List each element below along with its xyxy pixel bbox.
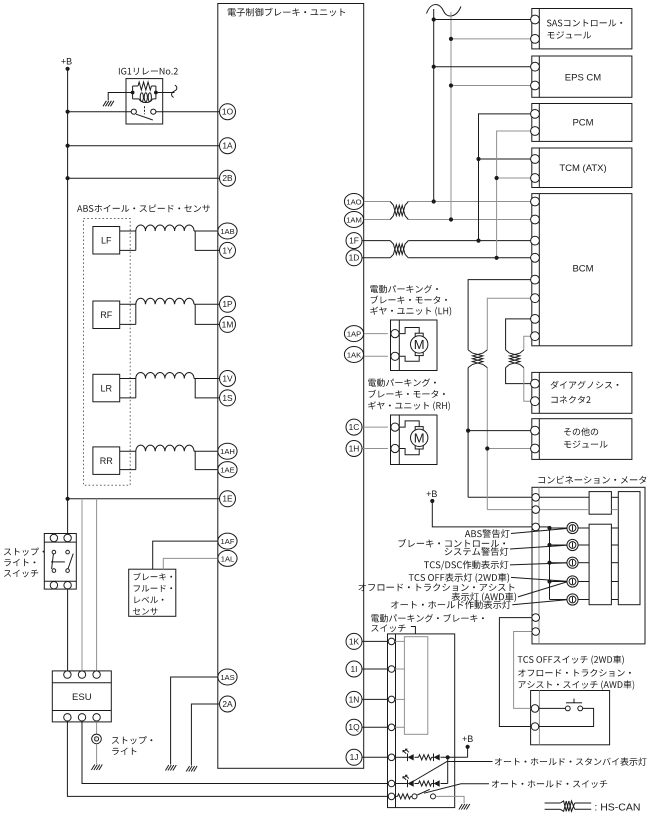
- inductor RR sensor coil: [136, 445, 194, 451]
- connector EPB switch pin at y=796.4: [388, 793, 395, 800]
- junction lamp bus 3: [547, 561, 551, 565]
- svg-text:1Q: 1Q: [348, 722, 360, 732]
- wire stop light switch levers: [51, 554, 73, 569]
- module ダイアグノシス・コネクタ2 box: [532, 372, 632, 413]
- wire stop light switch to ESU: [67, 589, 69, 672]
- inductor LF sensor coil: [136, 225, 194, 231]
- svg-text:2B: 2B: [222, 173, 233, 183]
- wire relay switch lever: [136, 114, 153, 120]
- wire lamp 3 block stub: [611, 562, 618, 564]
- wire meter pin4 to TCS switch pin2: [499, 618, 532, 727]
- wire meter pin5 to TCS switch pin1: [514, 632, 532, 709]
- wire meter lamp supply bus: [540, 527, 550, 600]
- inductor RF sensor coil: [136, 298, 194, 304]
- sensor LF (ABS wheel speed sensor) box: [93, 227, 120, 255]
- label その他のモジュール: [564, 428, 608, 448]
- wire pin 1Q to EPB switch: [363, 726, 388, 728]
- motor M (RH) brushes: [415, 427, 423, 449]
- wire CAN bus vertical (to SAS/EPS, CAN-H): [433, 9, 435, 202]
- label TCS/DSC作動表示灯: [424, 560, 508, 570]
- wire TCS switch return loop: [539, 708, 594, 726]
- connector LH unit pin at y=356.3: [391, 352, 399, 360]
- connector TCS switch pin at y=708.4: [531, 705, 539, 713]
- wire その他のモジュール pin1 stub: [468, 430, 532, 432]
- label IG1リレーNo.2: [119, 68, 178, 75]
- node relay internal node right: [154, 91, 158, 95]
- twisted pair BCM/meter: [468, 350, 487, 368]
- connector ESU bottom pin x=67.4: [64, 714, 71, 721]
- connector RH unit pin at y=427.1: [391, 423, 399, 431]
- module ESU box: [52, 671, 111, 722]
- connector ESU bottom pin x=82: [78, 714, 85, 721]
- svg-text:1O: 1O: [222, 107, 234, 117]
- wire pin 1AS to ground: [171, 677, 220, 765]
- wire RF coil to upper pin: [194, 303, 220, 305]
- wire pin 1E feed: [68, 498, 220, 500]
- resistor row2 chain resistor: [419, 781, 432, 786]
- wire PCM connector strip inner edge: [538, 104, 540, 142]
- junction CAN-H / SAS: [432, 17, 436, 21]
- lamp ブレーキ・コントロール・システム警告灯 indicator: [567, 539, 578, 550]
- connector meter pin at y=509.6: [532, 506, 540, 514]
- switch 電動パーキング・ブレーキ・スイッチ box: [388, 634, 455, 808]
- wire pin 2A to ground: [191, 704, 220, 766]
- wire EPS pin1 feed: [434, 66, 532, 68]
- wire RH motor supply route (lower): [399, 449, 419, 455]
- wire 1E row to ESU pin 3: [96, 499, 98, 672]
- wire LR sensor stub lower: [120, 397, 136, 399]
- connector pin 1E: [220, 491, 236, 507]
- wire 1E row to ESU pin 2: [81, 499, 83, 672]
- svg-text:1AO: 1AO: [346, 197, 361, 206]
- connector module pin at y=113.9: [531, 110, 540, 119]
- wire BCM pin6 to meter pin2: [487, 298, 532, 509]
- svg-text:1A: 1A: [222, 141, 233, 151]
- wire RR coil to upper pin: [194, 450, 220, 452]
- wire SAS pin1 feed: [434, 19, 532, 21]
- connector pin 1Q: [346, 719, 362, 735]
- wire PCM pin1 to 1F: [479, 114, 532, 241]
- wire pin 1N to EPB switch: [363, 698, 388, 700]
- connector meter pin at y=617.6: [532, 614, 540, 622]
- wire lamp 5 feed stub: [550, 599, 590, 601]
- wire relay parallel-branch bracket (left): [133, 86, 156, 99]
- svg-text:PCM: PCM: [572, 118, 593, 129]
- connector meter pin at y=526.9: [532, 523, 540, 531]
- label オート・ホールド作動表示灯: [391, 600, 511, 609]
- svg-text:1P: 1P: [222, 299, 233, 309]
- svg-text:M: M: [414, 337, 425, 352]
- wire BCM pin5 to meter pin1: [468, 280, 532, 498]
- connector module pin at y=336.2: [531, 332, 540, 341]
- connector pin 1K: [346, 633, 362, 649]
- wire stop light to ground: [96, 744, 98, 764]
- label TCM (ATX): [559, 163, 606, 174]
- wire SAS pin2 feed: [451, 38, 532, 40]
- wire 1J LED chain lead: [395, 756, 408, 758]
- connector module pin at y=240.6: [531, 236, 540, 245]
- label ストップ・ライト・スイッチ: [4, 548, 45, 578]
- label オフロード・トラクション・アシスト表示灯 (AWD車): [359, 583, 517, 602]
- connector pin 1AE: [218, 462, 237, 478]
- wire LR coil to upper pin: [194, 378, 220, 380]
- label コンビネーション・メータ: [539, 476, 647, 484]
- svg-text:1K: 1K: [349, 636, 360, 646]
- motor unit 電動パーキング・ブレーキ・モータ・ギヤ・ユニット (LH) box: [391, 320, 438, 371]
- wire LF coil to upper pin: [194, 230, 220, 232]
- lamp ストップ・ライト stop light: [92, 734, 102, 744]
- connector module pin at y=131: [531, 127, 540, 136]
- wire lamp 1 block stub: [611, 527, 618, 529]
- svg-text:LR: LR: [101, 383, 113, 393]
- module meter internal block (top): [589, 492, 611, 515]
- junction +B / 2B: [66, 176, 70, 180]
- wire +B to pin 2B: [68, 177, 220, 179]
- wire pin feed to RH unit pin1: [363, 426, 388, 428]
- connector EPB switch pin at y=641.4: [388, 638, 395, 645]
- wire pin feed to LH unit pin2: [363, 355, 388, 357]
- module その他のモジュール box: [532, 419, 632, 460]
- motor unit 電動パーキング・ブレーキ・モータ・ギヤ・ユニット (RH) box: [391, 415, 438, 465]
- switch オート・ホールド・スイッチ contacts: [412, 794, 436, 799]
- wire RF sensor stub lower: [120, 323, 136, 325]
- svg-text:1AP: 1AP: [347, 330, 361, 339]
- junction lamp bus 1: [547, 526, 551, 530]
- connector pin 1N: [346, 691, 362, 707]
- node ABS wheel speed sensor dashed enclosure: [84, 219, 131, 486]
- junction その他 pin1: [466, 429, 470, 433]
- label 電動パーキング・ブレーキ・スイッチ: [371, 614, 484, 632]
- resistor 1J chain resistor: [419, 755, 432, 760]
- label ABS警告灯: [465, 529, 510, 538]
- connector stop light switch pin (53.9,538): [50, 534, 57, 541]
- twisted pair BCM/diagnosis connector: [506, 350, 524, 368]
- ground 2A ground: [186, 766, 197, 772]
- wire LH motor supply route (upper): [399, 328, 419, 334]
- label RF: [100, 310, 112, 320]
- wire leader TCS/DSC作動表示灯: [510, 563, 567, 565]
- wire chain node to row2: [447, 757, 449, 783]
- wire BCM pin7 to diagnosis connector pin1: [506, 319, 532, 384]
- connector module pin at y=85.5: [531, 81, 540, 90]
- wire +B vertical feed (left): [67, 69, 69, 535]
- wire RF sensor stub upper: [120, 303, 136, 305]
- svg-text:2A: 2A: [222, 699, 233, 709]
- wire relay contact to pin 1O: [156, 111, 220, 113]
- svg-text:TCM (ATX): TCM (ATX): [559, 163, 606, 174]
- connector module pin at y=201.5: [531, 197, 540, 206]
- connector ESU bottom pin x=96.6: [93, 714, 100, 721]
- node IG1 feed continuation squiggle: [172, 85, 177, 97]
- resistor relay parallel resistor: [133, 82, 156, 90]
- svg-text:: HS-CAN: : HS-CAN: [594, 802, 640, 814]
- label ESU: [72, 692, 92, 703]
- wire leader オート・ホールド・スタンバイ表示灯: [413, 762, 493, 782]
- LED オート・ホールド・スタンバイ表示灯 (row1): [403, 749, 414, 761]
- resistor auto-hold switch resistor: [395, 794, 412, 799]
- wire TCS box connector strip inner edge: [538, 691, 540, 745]
- switch TCS OFFスイッチ box: [531, 691, 610, 745]
- svg-text:1C: 1C: [349, 422, 360, 432]
- wire auto-hold switch to ground: [436, 796, 465, 803]
- connector stop light switch pin (67.6,538): [64, 534, 71, 541]
- module 電子制御ブレーキ・ユニット (electronic brake control unit) box: [218, 4, 364, 769]
- wire relay coil to ground: [108, 93, 132, 101]
- wire RH motor supply route (upper): [399, 421, 419, 427]
- junction TCM pin2: [495, 176, 499, 180]
- connector module pin at y=298.2: [531, 294, 540, 303]
- junction 1AM / CAN-L vertical: [449, 217, 453, 221]
- wire pin 1K to EPB switch: [363, 640, 388, 642]
- svg-text:ESU: ESU: [72, 692, 92, 703]
- power +B supply (combination meter): [426, 489, 437, 503]
- connector pin 2A: [220, 696, 236, 712]
- svg-text:M: M: [414, 430, 425, 445]
- connector pin 1AF: [218, 533, 237, 549]
- wire LF sensor stub lower: [120, 249, 136, 251]
- wire LF sensor stub upper: [120, 230, 136, 232]
- connector module pin at y=219.5: [531, 215, 540, 224]
- inductor relay coil: [133, 93, 156, 103]
- label TCS OFF表示灯 (2WD車): [409, 573, 509, 583]
- junction 1D tee: [495, 256, 499, 260]
- sensor LR (ABS wheel speed sensor) box: [93, 374, 120, 402]
- wire EPS connector strip inner edge: [538, 56, 540, 97]
- wire +B to pin 1A: [68, 145, 220, 147]
- module meter internal block (right): [618, 492, 640, 605]
- connector pin 1M: [220, 316, 236, 332]
- wire row2 chain to node: [441, 783, 448, 785]
- connector module pin at y=401.2: [531, 397, 540, 406]
- label PCM: [572, 118, 593, 129]
- module コンビネーション・メータ box: [532, 487, 645, 644]
- twisted pair HS-CAN legend twist: [560, 801, 574, 811]
- connector module pin at y=257.8: [531, 253, 540, 262]
- wire +B drop (EPB): [467, 747, 469, 758]
- label SASコントロール・モジュール: [547, 19, 622, 38]
- svg-text:+B: +B: [61, 57, 72, 67]
- junction CAN-L / EPS: [449, 83, 453, 87]
- junction 1AO / CAN-H vertical: [432, 199, 436, 203]
- connector module pin at y=178: [531, 174, 540, 183]
- connector pin 1AS: [218, 669, 237, 685]
- wire relay contact dashed actuator link: [144, 106, 146, 114]
- connector pin 1J: [346, 749, 362, 765]
- connector ESU top pin x=82: [78, 671, 85, 678]
- connector TCS switch pin at y=726.5: [531, 723, 539, 731]
- svg-text:1J: 1J: [350, 752, 359, 762]
- svg-text:BCM: BCM: [572, 264, 593, 275]
- label 電子制御ブレーキ・ユニット: [228, 8, 346, 17]
- wire RF step-down to lower pin: [195, 304, 220, 324]
- connector pin 1Y: [220, 242, 236, 258]
- wire lamp 1 feed stub: [550, 527, 590, 529]
- junction +B / relay contact: [66, 110, 70, 114]
- wire ESU connector strips: [52, 683, 111, 711]
- wire EPB switch pin stubs to internal block: [395, 641, 405, 727]
- junction 1F tee: [476, 239, 480, 243]
- svg-text:1S: 1S: [222, 393, 233, 403]
- connector module pin at y=448.5: [531, 444, 540, 453]
- wire LH unit connector strip inner edge: [398, 320, 400, 371]
- wire pin 1AO CAN line: [363, 201, 532, 203]
- module PCM box: [532, 104, 632, 142]
- lamp TCS/DSC作動表示灯 indicator: [567, 557, 578, 568]
- sensor ブレーキ・フルード・レベル・センサ box: [129, 569, 176, 616]
- svg-text:1AE: 1AE: [220, 466, 234, 475]
- connector ESU top pin x=67.4: [64, 671, 71, 678]
- wire LR sensor stub bridge: [135, 379, 137, 398]
- connector EPB switch pin at y=669: [388, 666, 395, 673]
- wire RR sensor stub upper: [120, 450, 136, 452]
- wire RR step-down to lower pin: [195, 451, 220, 469]
- wire lamp 2 block stub: [611, 544, 618, 546]
- node HS-CAN legend: [545, 803, 592, 809]
- connector pin 1S: [220, 390, 236, 406]
- power +B supply (top left): [61, 57, 72, 71]
- connector stop light switch pin (67.6,585.2): [64, 582, 71, 589]
- wire meter pin1 internal: [540, 496, 589, 498]
- wire TCS switch pin1 internal: [539, 707, 566, 709]
- connector meter pin at y=631.5: [532, 628, 540, 636]
- power +B supply (EPB): [462, 734, 473, 749]
- node relay internal node left: [131, 91, 135, 95]
- svg-text:1AK: 1AK: [347, 350, 361, 359]
- label EPS CM: [565, 73, 602, 84]
- label : HS-CAN: [594, 802, 640, 814]
- wire PCM pin2 to 1D: [497, 131, 532, 258]
- connector module pin at y=279.6: [531, 275, 540, 284]
- connector EPB switch pin at y=727.3: [388, 724, 395, 731]
- wire lamp 4 block stub: [611, 581, 618, 583]
- twisted pair 1AO/1AM: [390, 202, 408, 220]
- wire RH unit connector strip inner edge: [398, 415, 400, 465]
- connector EPB switch pin at y=757.3: [388, 754, 395, 761]
- label ストップ・ライト: [112, 736, 153, 755]
- svg-text:1AF: 1AF: [221, 537, 235, 546]
- ground stop light ground: [91, 765, 102, 771]
- junction CAN-H / EPS: [432, 65, 436, 69]
- wire pin 1F CAN line: [363, 240, 532, 242]
- wire meter internal block stubs (top): [611, 497, 618, 509]
- connector pin 1AB: [218, 223, 237, 239]
- connector pin 1AK: [344, 347, 363, 363]
- connector pin 1P: [220, 296, 236, 312]
- wire relay coil to IG1 feed: [156, 92, 175, 94]
- wire CAN bus vertical (to SAS/EPS, CAN-L): [450, 12, 452, 220]
- wire stop light switch connector strips: [44, 542, 76, 581]
- switch stop light switch contacts: [52, 550, 69, 572]
- wire meter connector strip inner edge: [538, 487, 540, 644]
- wire lamp 2 feed stub: [550, 544, 590, 546]
- connector stop light switch pin (53.9,585.2): [50, 582, 57, 589]
- motor M (RH): [411, 429, 428, 446]
- label ブレーキ・コントロール・システム警告灯: [398, 539, 508, 556]
- node off-page continuation (wavy break): [427, 5, 462, 16]
- connector pin 1AH: [218, 443, 237, 459]
- wire EPS pin2 feed: [451, 85, 532, 87]
- junction lamp bus 2: [547, 543, 551, 547]
- wire EPB switch connector strip inner edge: [395, 634, 397, 808]
- inductor LR sensor coil: [136, 372, 194, 378]
- wire meter pin2 internal: [540, 509, 589, 511]
- wire leader オート・ホールド・スイッチ: [424, 784, 489, 793]
- wire other-module connector strip inner edge: [538, 419, 540, 460]
- sensor RR (ABS wheel speed sensor) box: [93, 447, 120, 475]
- svg-text:1H: 1H: [349, 443, 360, 453]
- junction TCM pin1: [476, 157, 480, 161]
- module SAS コントロール・モジュール box: [532, 9, 632, 49]
- ground relay coil ground: [103, 101, 114, 107]
- wire LF step-down to lower pin: [195, 231, 220, 250]
- wire leader システム警告灯: [510, 545, 567, 549]
- svg-text:1AS: 1AS: [220, 673, 234, 682]
- wire pin 1AM CAN line: [363, 219, 532, 221]
- connector ESU top pin x=96.6: [93, 671, 100, 678]
- svg-text:RF: RF: [100, 310, 112, 320]
- connector pin 1F: [346, 233, 362, 249]
- wire TCM connector strip inner edge: [538, 148, 540, 188]
- wire row2 LED chain lead: [395, 783, 408, 785]
- ground auto-hold switch ground: [459, 804, 470, 810]
- module EPS CM box: [532, 56, 632, 97]
- wire TCM pin2 stub: [497, 177, 532, 179]
- lamp TCS OFF表示灯 indicator: [567, 576, 578, 587]
- node EPB switch illumination tick: [411, 627, 416, 634]
- connector pin 1AM: [344, 212, 363, 228]
- connector pin 1H: [346, 441, 362, 457]
- label 電動パーキング・ブレーキ・モータ・ギヤ・ユニット (RH): [368, 378, 450, 410]
- label オート・ホールド・スタンバイ表示灯: [495, 757, 647, 765]
- relay IG1リレーNo.2 box: [126, 79, 163, 124]
- wire pin 1AF to fluid level sensor: [153, 541, 220, 569]
- connector module pin at y=19.5: [531, 15, 540, 24]
- wire pin 1D CAN line: [363, 257, 532, 259]
- wire その他のモジュール pin2 stub: [487, 448, 532, 450]
- wire pin feed to LH unit pin1: [363, 333, 388, 335]
- label オート・ホールド・スイッチ: [492, 780, 607, 788]
- svg-text:+B: +B: [426, 489, 437, 499]
- connector module pin at y=383.6: [531, 379, 540, 388]
- wire ESU pin1 to EPB switch (bottom run): [67, 719, 387, 796]
- wire +B to meter pin3: [432, 501, 532, 527]
- junction CAN-L / SAS: [449, 37, 453, 41]
- wire leader オート・ホールド作動表示灯: [512, 600, 566, 605]
- svg-text:1I: 1I: [351, 664, 358, 674]
- svg-text:+B: +B: [462, 734, 473, 744]
- wire diagnosis connector strip inner edge: [538, 372, 540, 413]
- ground 1AS ground: [165, 765, 176, 771]
- junction +B / 1A: [66, 144, 70, 148]
- label BCM: [572, 264, 593, 275]
- label TCS OFFスイッチ (2WD車) / オフロード・トラクション・アシスト・スイッチ (AWD車): [518, 655, 635, 690]
- connector pin 1D: [346, 250, 362, 266]
- twisted pair 1F/1D: [390, 241, 408, 258]
- LED オート・ホールド・スタンバイ表示灯 (row2): [403, 775, 414, 787]
- connector pin 1AL: [218, 550, 237, 566]
- connector pin 2B: [220, 170, 236, 186]
- connector EPB switch pin at y=783.5: [388, 780, 395, 787]
- module TCM (ATX) box: [532, 148, 632, 188]
- module EPB switch internal block: [404, 637, 427, 735]
- junction その他 pin2: [485, 446, 489, 450]
- connector RH unit pin at y=448.5: [391, 444, 399, 452]
- wire ESU pin2 to EPB switch (bottom run): [82, 719, 388, 784]
- wire leader 表示灯 (AWD車): [518, 582, 567, 597]
- svg-text:1N: 1N: [349, 694, 360, 704]
- motor M (LH): [411, 336, 428, 353]
- sensor RF (ABS wheel speed sensor) box: [93, 301, 120, 329]
